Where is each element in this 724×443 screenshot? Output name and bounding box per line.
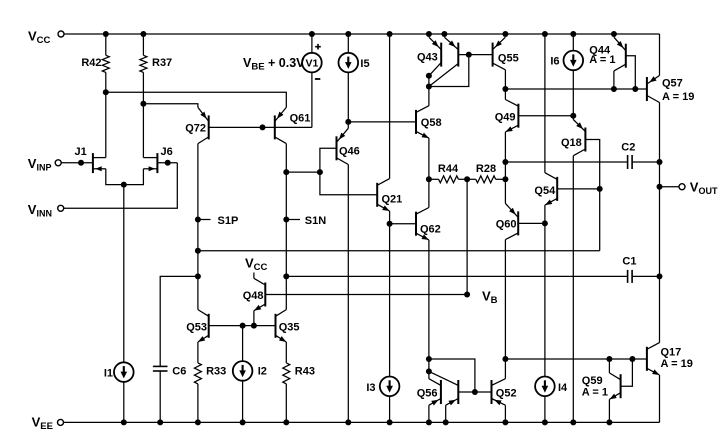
transistor Q61 (275, 107, 311, 143)
wire Q18 emitter (572, 116, 574, 120)
node S1P to long wire (195, 248, 201, 254)
wire Q48 base to VB (265, 294, 467, 296)
node R44-R28 mid (464, 176, 470, 182)
wire VCC rail end to Q57 emitter (659, 34, 661, 76)
transistor Q17 (647, 343, 693, 375)
node C6 at VEE (157, 419, 163, 425)
label VB (482, 289, 498, 307)
node I6 top (570, 31, 576, 37)
node Q43 base tie (466, 52, 472, 58)
wire C6 branch (160, 276, 198, 366)
svg-text:R28: R28 (476, 163, 496, 175)
node Q52 emitter at VEE (502, 419, 508, 425)
capacitor C2 (505, 141, 659, 169)
svg-text:R43: R43 (295, 365, 315, 377)
node Q43 collector a (426, 73, 432, 79)
svg-text:Q46: Q46 (339, 145, 360, 157)
node Q59 collector tie (606, 356, 612, 362)
transistor Q58 (416, 106, 442, 138)
wire Q43 diode tie (429, 55, 469, 87)
label VBE+0.3V (243, 56, 305, 73)
terminal VCC (28, 29, 64, 47)
transistor Q46 (337, 128, 360, 164)
wire Q61 collector to Q46 base (286, 171, 320, 173)
resistor R28 (467, 163, 505, 183)
node C2 right (657, 159, 663, 165)
node Q56/Q52 base tie (472, 389, 478, 395)
node Q59 base tie (629, 356, 635, 362)
wire Q57 collector down (output spine) (659, 103, 661, 343)
svg-text:J6: J6 (161, 146, 173, 158)
svg-text:Q18: Q18 (561, 137, 582, 149)
wire S1P line (Q72 collector to Q53 collector) (197, 144, 199, 310)
wire Q44 base (626, 56, 636, 89)
svg-text:I5: I5 (360, 58, 369, 70)
node J6 gate (165, 160, 171, 166)
node I1 at VEE (121, 419, 127, 425)
svg-text:Q49: Q49 (495, 112, 516, 124)
svg-text:I3: I3 (366, 382, 375, 394)
node I5 to Q58 base (345, 119, 351, 125)
svg-text:Q17: Q17 (661, 347, 682, 359)
node Q56 tie top (426, 356, 432, 362)
svg-text:J1: J1 (75, 146, 87, 158)
node C6 branch (195, 273, 201, 279)
node I2 at base line (240, 323, 246, 329)
wire VB riser (466, 179, 468, 294)
current source I5 (339, 34, 370, 128)
svg-text:V1: V1 (305, 58, 318, 70)
svg-text:Q21: Q21 (382, 193, 403, 205)
wire Q49 emitter to C2 node (504, 132, 506, 162)
node Q54 emitter / Q60 base (542, 220, 548, 226)
wire Q62 base (390, 223, 416, 225)
wire Q53/Q35 base line (209, 325, 276, 327)
transistor Q56 (dual) (417, 371, 459, 405)
node Q43 emitter a (426, 31, 432, 37)
svg-text:S1P: S1P (218, 215, 239, 227)
wire Q56/Q52 base line (458, 391, 491, 393)
node I5 top (345, 31, 351, 37)
node S1P (195, 215, 238, 227)
label VCC above Q48 (245, 255, 268, 273)
node R42 bottom (103, 89, 109, 95)
resistor R43 (283, 342, 315, 422)
svg-text:Q61: Q61 (290, 112, 311, 124)
wire Q18 base (585, 140, 599, 251)
node Q43 emitter b (441, 31, 447, 37)
capacitor C1 (286, 256, 659, 283)
power rail VEE (bottom) (64, 421, 660, 423)
svg-text:C1: C1 (622, 256, 636, 268)
wire J1 source (106, 169, 144, 185)
svg-text:Q62: Q62 (420, 224, 441, 236)
transistor Q53 (186, 310, 208, 342)
wire J6 drain (142, 104, 144, 158)
svg-text:R42: R42 (81, 57, 101, 69)
wire Q49 collector (504, 89, 506, 100)
node Q18 collector at VEE (570, 419, 576, 425)
wire Q60 base (518, 222, 545, 224)
transistor Q72 (185, 107, 208, 143)
wire Q52 collector (504, 359, 506, 379)
jfet J1 (75, 146, 106, 173)
node I3 at VEE (387, 419, 393, 425)
node Q48 emitter at base line (251, 323, 257, 329)
svg-text:Q56: Q56 (417, 388, 438, 400)
node Q44 base tie (632, 86, 638, 92)
node Q55 collector (502, 86, 508, 92)
node Q44 emitter (611, 31, 617, 37)
node J1 gate (78, 160, 84, 166)
node R28 right (502, 176, 508, 182)
node Q44 collector (611, 86, 617, 92)
node R37 top (140, 31, 146, 37)
transistor Q49 (495, 100, 519, 132)
svg-text:Q57: Q57 (662, 78, 683, 90)
terminal VOUT (660, 180, 718, 197)
node R33 at VEE (195, 419, 201, 425)
transistor Q35 (276, 310, 300, 342)
node C1 left (S1N line) (283, 273, 289, 279)
node Q21 collector at VCC (387, 31, 393, 37)
wire Q21 emitter (389, 211, 391, 224)
wire Q46 collector down to VEE (347, 165, 349, 423)
current source I4 (535, 223, 568, 422)
node Q56b emitter at VEE (443, 419, 449, 425)
wire VINP to J1 gate (61, 162, 93, 164)
transistor Q52 (492, 379, 517, 406)
node Q54 collector at VCC (542, 31, 548, 37)
wire R37 node to Q72 emitter (143, 104, 198, 108)
wire Q72/Q61 base line (209, 126, 312, 128)
node Q18/Q54 base junction (597, 186, 603, 192)
wire Q43 base to Q55 base (458, 54, 492, 56)
wire Q48 emitter (253, 311, 255, 326)
svg-text:Q60: Q60 (496, 218, 517, 230)
wire Q60 emitter from R28 node (504, 179, 506, 203)
svg-text:C6: C6 (172, 365, 186, 377)
terminal VINP (28, 156, 61, 173)
transistor Q57 (647, 76, 694, 103)
resistor R37 (140, 34, 172, 104)
transistor Q44 (589, 37, 626, 71)
svg-text:Q53: Q53 (186, 322, 207, 334)
node Q52 collector (502, 356, 508, 362)
node VOUT (657, 184, 663, 190)
svg-text:R37: R37 (152, 57, 172, 69)
wire Q60 collector down (504, 240, 506, 359)
svg-text:Q35: Q35 (279, 322, 300, 334)
node Q49 base / I6 / Q18 emitter (570, 113, 576, 119)
node base Q72-Q61 (260, 124, 266, 130)
svg-text:S1N: S1N (305, 215, 326, 227)
wire Q18 collector to VEE (572, 156, 574, 423)
svg-text:I4: I4 (558, 382, 568, 394)
transistor Q18 (561, 120, 585, 156)
node C1 right (657, 273, 663, 279)
wire Q56a emitter (428, 405, 430, 422)
current source I2 (233, 326, 267, 423)
node Q43 collector b (426, 84, 432, 90)
node Q59 emitter at VEE (606, 419, 612, 425)
wire Q54 emitter (544, 205, 546, 223)
node I4 at VEE (542, 419, 548, 425)
resistor R42 (81, 34, 109, 92)
wire Q55 collector (504, 70, 506, 89)
wire S1P to Q18 base (long) (198, 250, 600, 252)
wire Q62 emitter chain down (428, 240, 430, 379)
wire Q49 base (518, 115, 573, 117)
current source I3 (366, 224, 399, 423)
capacitor C6 (153, 365, 186, 422)
wire Q54 base (557, 188, 600, 190)
wire Q56b emitter (445, 405, 447, 422)
current source I6 (550, 34, 583, 116)
svg-text:Q52: Q52 (496, 388, 517, 400)
wire Q54 collector to VCC (544, 34, 546, 173)
resistor R44 (429, 163, 467, 183)
node VB (464, 292, 470, 298)
svg-text:I2: I2 (258, 365, 267, 377)
wire Q43 collectors to Q58 collector (428, 76, 430, 106)
svg-text:C2: C2 (621, 141, 635, 153)
svg-text:R33: R33 (206, 365, 226, 377)
terminal VINN (28, 202, 64, 219)
transistor Q62 (416, 208, 441, 240)
svg-text:Q55: Q55 (498, 52, 519, 64)
svg-text:A = 19: A = 19 (662, 91, 694, 103)
svg-text:A = 19: A = 19 (661, 358, 693, 370)
current source I1 (104, 185, 134, 423)
wire Q17 emitter to VEE (659, 375, 661, 422)
svg-text:Q48: Q48 (243, 290, 264, 302)
wire I5 to Q58 base (348, 121, 416, 123)
transistor Q21 (377, 179, 402, 211)
voltage source V1 (302, 34, 322, 127)
wire Q62 emitter to Q56 base tie (429, 359, 475, 392)
wire Q44 collector (613, 71, 615, 89)
node I2 at VEE (240, 419, 246, 425)
wire Q58 emitter to R44 node (428, 138, 430, 179)
node JFET common source (121, 182, 127, 188)
svg-text:Q72: Q72 (185, 123, 206, 135)
wire Q49 emitter node to R28 (504, 162, 506, 179)
svg-text:I1: I1 (104, 368, 113, 380)
transistor Q59 (582, 359, 621, 399)
svg-text:A = 1: A = 1 (582, 386, 608, 398)
wire J6 gate (157, 162, 177, 164)
resistor R33 (194, 342, 226, 422)
terminal VEE (32, 415, 64, 433)
svg-text:Q59: Q59 (582, 375, 603, 387)
transistor Q54 (534, 173, 557, 205)
node Q56b collector (426, 368, 432, 374)
node S1N (283, 215, 326, 227)
transistor Q60 (496, 203, 518, 239)
node R37 bottom (140, 101, 146, 107)
node V1 top (309, 31, 315, 37)
node R43 at VEE (283, 419, 289, 425)
wire Q60 collector to Q17 base (505, 358, 647, 360)
wire Q46 base (320, 148, 377, 195)
transistor Q48 (243, 273, 266, 311)
wire R42 node to Q61 emitter (106, 92, 286, 107)
wire Q21 collector to VCC (389, 34, 391, 179)
wire S1N line (Q61 collector down) (285, 144, 287, 310)
power rail VCC (top) (64, 33, 660, 35)
svg-text:Q43: Q43 (417, 52, 438, 64)
svg-text:I6: I6 (550, 56, 559, 68)
wire J1 drain (105, 92, 107, 157)
node Q46 base riser (317, 169, 323, 175)
jfet J6 (143, 146, 172, 173)
node R42 top (103, 31, 109, 37)
svg-text:Q54: Q54 (534, 185, 556, 197)
wire Q59 emitter (608, 399, 610, 422)
wire Q52 emitter (504, 405, 506, 422)
node Q55 emitter (502, 31, 508, 37)
wire Q55 collector to Q57 base (505, 88, 647, 90)
node R44 left (426, 176, 432, 182)
node C2 left (502, 159, 508, 165)
svg-text:R44: R44 (438, 163, 459, 175)
node S1N top (283, 169, 289, 175)
wire Q59 base (621, 359, 633, 386)
node Q56a emitter at VEE (426, 419, 432, 425)
svg-text:A = 1: A = 1 (589, 54, 615, 66)
wire VINN to J6 gate (64, 163, 178, 209)
node Q21 emitter junction (387, 221, 393, 227)
wire Q62 collector to R44 node (428, 179, 430, 207)
node Q46 collector at VEE (345, 419, 351, 425)
svg-text:Q58: Q58 (421, 117, 442, 129)
transistor Q43 (dual) (417, 37, 458, 86)
transistor Q55 (493, 37, 519, 70)
